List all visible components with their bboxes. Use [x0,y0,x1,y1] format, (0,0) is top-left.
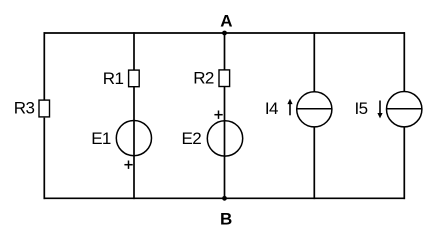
node A [222,31,227,36]
resistor R2 [219,70,230,87]
polarity + of E2 [214,111,222,119]
svg-text:E1: E1 [91,129,111,148]
wire I5 branch lower [403,127,405,200]
svg-text:I4: I4 [265,99,278,118]
svg-text:B: B [220,209,232,228]
wire I4 branch upper [313,32,315,92]
wire I4 branch lower [313,127,315,200]
resistor R3 [39,100,50,117]
wire top rail [44,32,406,34]
current source I5 [387,92,422,127]
wire I5 branch upper [403,32,405,92]
wire R3 branch lower [43,118,45,200]
resistor R1 [129,70,140,87]
arrow of I5 (down) [377,101,382,119]
wire R2/E2 branch [224,33,226,198]
current source I4 [297,92,332,127]
wire R1/E1 branch [133,32,135,199]
wire R3 branch upper [43,32,45,100]
node B [222,196,227,201]
voltage source E1 [116,121,151,156]
svg-text:R3: R3 [14,99,35,118]
svg-text:E2: E2 [182,129,202,148]
arrow of I4 (up) [287,99,292,116]
wire bottom rail [44,197,406,199]
svg-text:R1: R1 [103,69,124,88]
svg-text:R2: R2 [193,69,214,88]
voltage source E2 [207,121,242,156]
svg-text:A: A [220,12,232,31]
svg-text:I5: I5 [355,99,368,118]
polarity + of E1 [124,161,132,169]
